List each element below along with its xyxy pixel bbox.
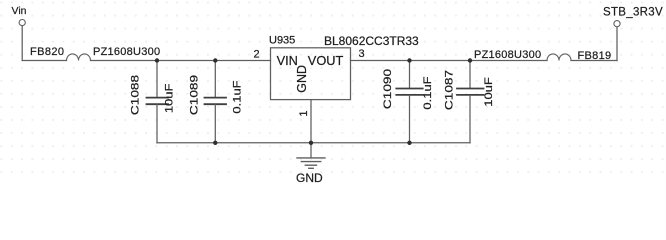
svg-text:VOUT: VOUT — [308, 53, 344, 68]
svg-text:STB_3R3V: STB_3R3V — [603, 6, 663, 18]
junction — [468, 58, 472, 62]
svg-text:PZ1608U300: PZ1608U300 — [93, 46, 160, 58]
junction — [213, 141, 217, 145]
wire pin1 — [310, 100, 312, 143]
junction — [407, 58, 411, 62]
junction — [309, 141, 313, 145]
capacitor C1090 — [396, 61, 422, 143]
svg-text:GND: GND — [295, 65, 309, 93]
svg-text:1: 1 — [298, 110, 310, 116]
capacitor C1089 — [205, 61, 227, 143]
svg-text:10uF: 10uF — [162, 84, 175, 114]
node Vin — [19, 20, 25, 61]
svg-text:3: 3 — [359, 48, 365, 60]
svg-text:0.1uF: 0.1uF — [421, 76, 434, 109]
junction — [213, 58, 217, 62]
svg-text:U935: U935 — [269, 35, 295, 47]
svg-text:FB820: FB820 — [30, 46, 64, 58]
ground — [297, 143, 325, 169]
svg-text:PZ1608U300: PZ1608U300 — [474, 49, 541, 61]
junction — [155, 58, 159, 62]
node STB_3R3V — [614, 21, 620, 61]
svg-text:C1088: C1088 — [129, 75, 141, 115]
regulator U935 — [271, 48, 351, 100]
svg-text:C1087: C1087 — [443, 70, 455, 110]
svg-text:BL8062CC3TR33: BL8062CC3TR33 — [324, 34, 419, 48]
svg-text:C1090: C1090 — [381, 69, 393, 109]
svg-text:2: 2 — [254, 48, 260, 60]
svg-text:FB819: FB819 — [578, 50, 612, 62]
capacitor C1087 — [457, 61, 484, 143]
ferrite bead FB819 — [547, 54, 571, 61]
wire — [351, 60, 548, 62]
wire bottom rail — [157, 142, 470, 144]
svg-text:GND: GND — [296, 171, 323, 183]
junction — [407, 141, 411, 145]
wire — [22, 60, 66, 62]
svg-text:C1089: C1089 — [188, 75, 200, 115]
svg-text:Vin: Vin — [12, 5, 27, 17]
svg-text:10uF: 10uF — [482, 77, 495, 107]
ferrite bead FB820 — [67, 54, 91, 61]
wire — [91, 60, 271, 62]
svg-text:0.1uF: 0.1uF — [230, 80, 243, 113]
wire — [571, 60, 617, 62]
capacitor C1088 — [147, 61, 169, 143]
